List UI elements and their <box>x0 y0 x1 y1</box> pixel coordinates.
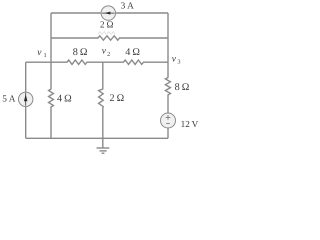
svg-text:12 V: 12 V <box>181 119 199 129</box>
svg-text:2 Ω: 2 Ω <box>110 93 125 104</box>
svg-text:3 A: 3 A <box>121 2 135 12</box>
svg-text:v: v <box>102 47 107 57</box>
svg-text:v: v <box>37 48 42 58</box>
svg-text:3: 3 <box>177 59 180 66</box>
svg-text:8 Ω: 8 Ω <box>73 47 88 58</box>
svg-text:4 Ω: 4 Ω <box>125 47 140 58</box>
svg-text:1: 1 <box>44 52 47 59</box>
svg-text:2: 2 <box>107 51 110 58</box>
svg-text:v: v <box>172 55 177 65</box>
svg-text:2 Ω: 2 Ω <box>100 20 114 30</box>
svg-text:8 Ω: 8 Ω <box>175 82 190 93</box>
svg-text:4 Ω: 4 Ω <box>57 94 72 105</box>
svg-text:5 A: 5 A <box>2 95 16 105</box>
